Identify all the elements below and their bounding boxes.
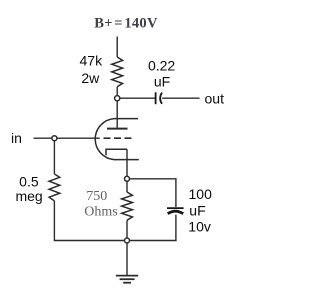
wire cap to bottom bbox=[175, 215, 177, 241]
wire node to coupling cap bbox=[120, 97, 155, 99]
svg-text:Ohms: Ohms bbox=[84, 205, 117, 220]
svg-text:47k: 47k bbox=[80, 53, 104, 69]
wire node to 750 resistor bbox=[126, 181, 128, 192]
node grid junction bbox=[52, 136, 57, 141]
wire resistor to bottom node bbox=[126, 220, 128, 238]
tube cathode bbox=[106, 149, 127, 155]
resistor R1 47k 2w bbox=[112, 57, 123, 87]
svg-text:0.22: 0.22 bbox=[148, 58, 175, 74]
svg-text:0.5: 0.5 bbox=[19, 173, 39, 189]
ground bbox=[116, 275, 138, 277]
wire ground lead bbox=[126, 243, 128, 275]
capacitor C2 100uF (electrolytic) bbox=[167, 207, 184, 209]
capacitor C1 0.22uF bbox=[155, 92, 157, 104]
wire input bbox=[34, 137, 100, 139]
svg-text:10v: 10v bbox=[188, 219, 211, 235]
wire B+ feed bbox=[116, 37, 118, 58]
svg-text:B+ = 140V: B+ = 140V bbox=[94, 16, 158, 32]
wire grid node down bbox=[53, 141, 55, 174]
wire cathode node to cap branch bbox=[130, 178, 177, 180]
resistor R2 0.5meg bbox=[49, 174, 60, 201]
svg-text:100: 100 bbox=[189, 186, 213, 202]
svg-text:out: out bbox=[205, 90, 225, 106]
wire cap to out bbox=[162, 97, 199, 99]
svg-text:uF: uF bbox=[154, 74, 170, 90]
tube grid (dashed) bbox=[104, 137, 132, 139]
node ground junction bbox=[125, 238, 130, 243]
wire plate lead bbox=[116, 101, 118, 128]
wire 0.5meg to bottom wire bbox=[54, 201, 125, 241]
wire cathode lead bbox=[126, 149, 128, 176]
tube plate bar U1 bbox=[107, 128, 128, 130]
op tube envelope bbox=[95, 119, 139, 160]
svg-text:2w: 2w bbox=[81, 70, 100, 86]
resistor R3 750 Ohms bbox=[122, 192, 133, 220]
node cathode junction bbox=[125, 176, 130, 181]
svg-text:uF: uF bbox=[189, 203, 205, 219]
svg-text:750: 750 bbox=[86, 189, 107, 204]
wire resistor to node bbox=[116, 87, 118, 96]
svg-text:meg: meg bbox=[15, 188, 42, 204]
node plate junction bbox=[115, 96, 120, 101]
wire bottom right bbox=[130, 240, 177, 242]
svg-text:in: in bbox=[11, 130, 22, 146]
